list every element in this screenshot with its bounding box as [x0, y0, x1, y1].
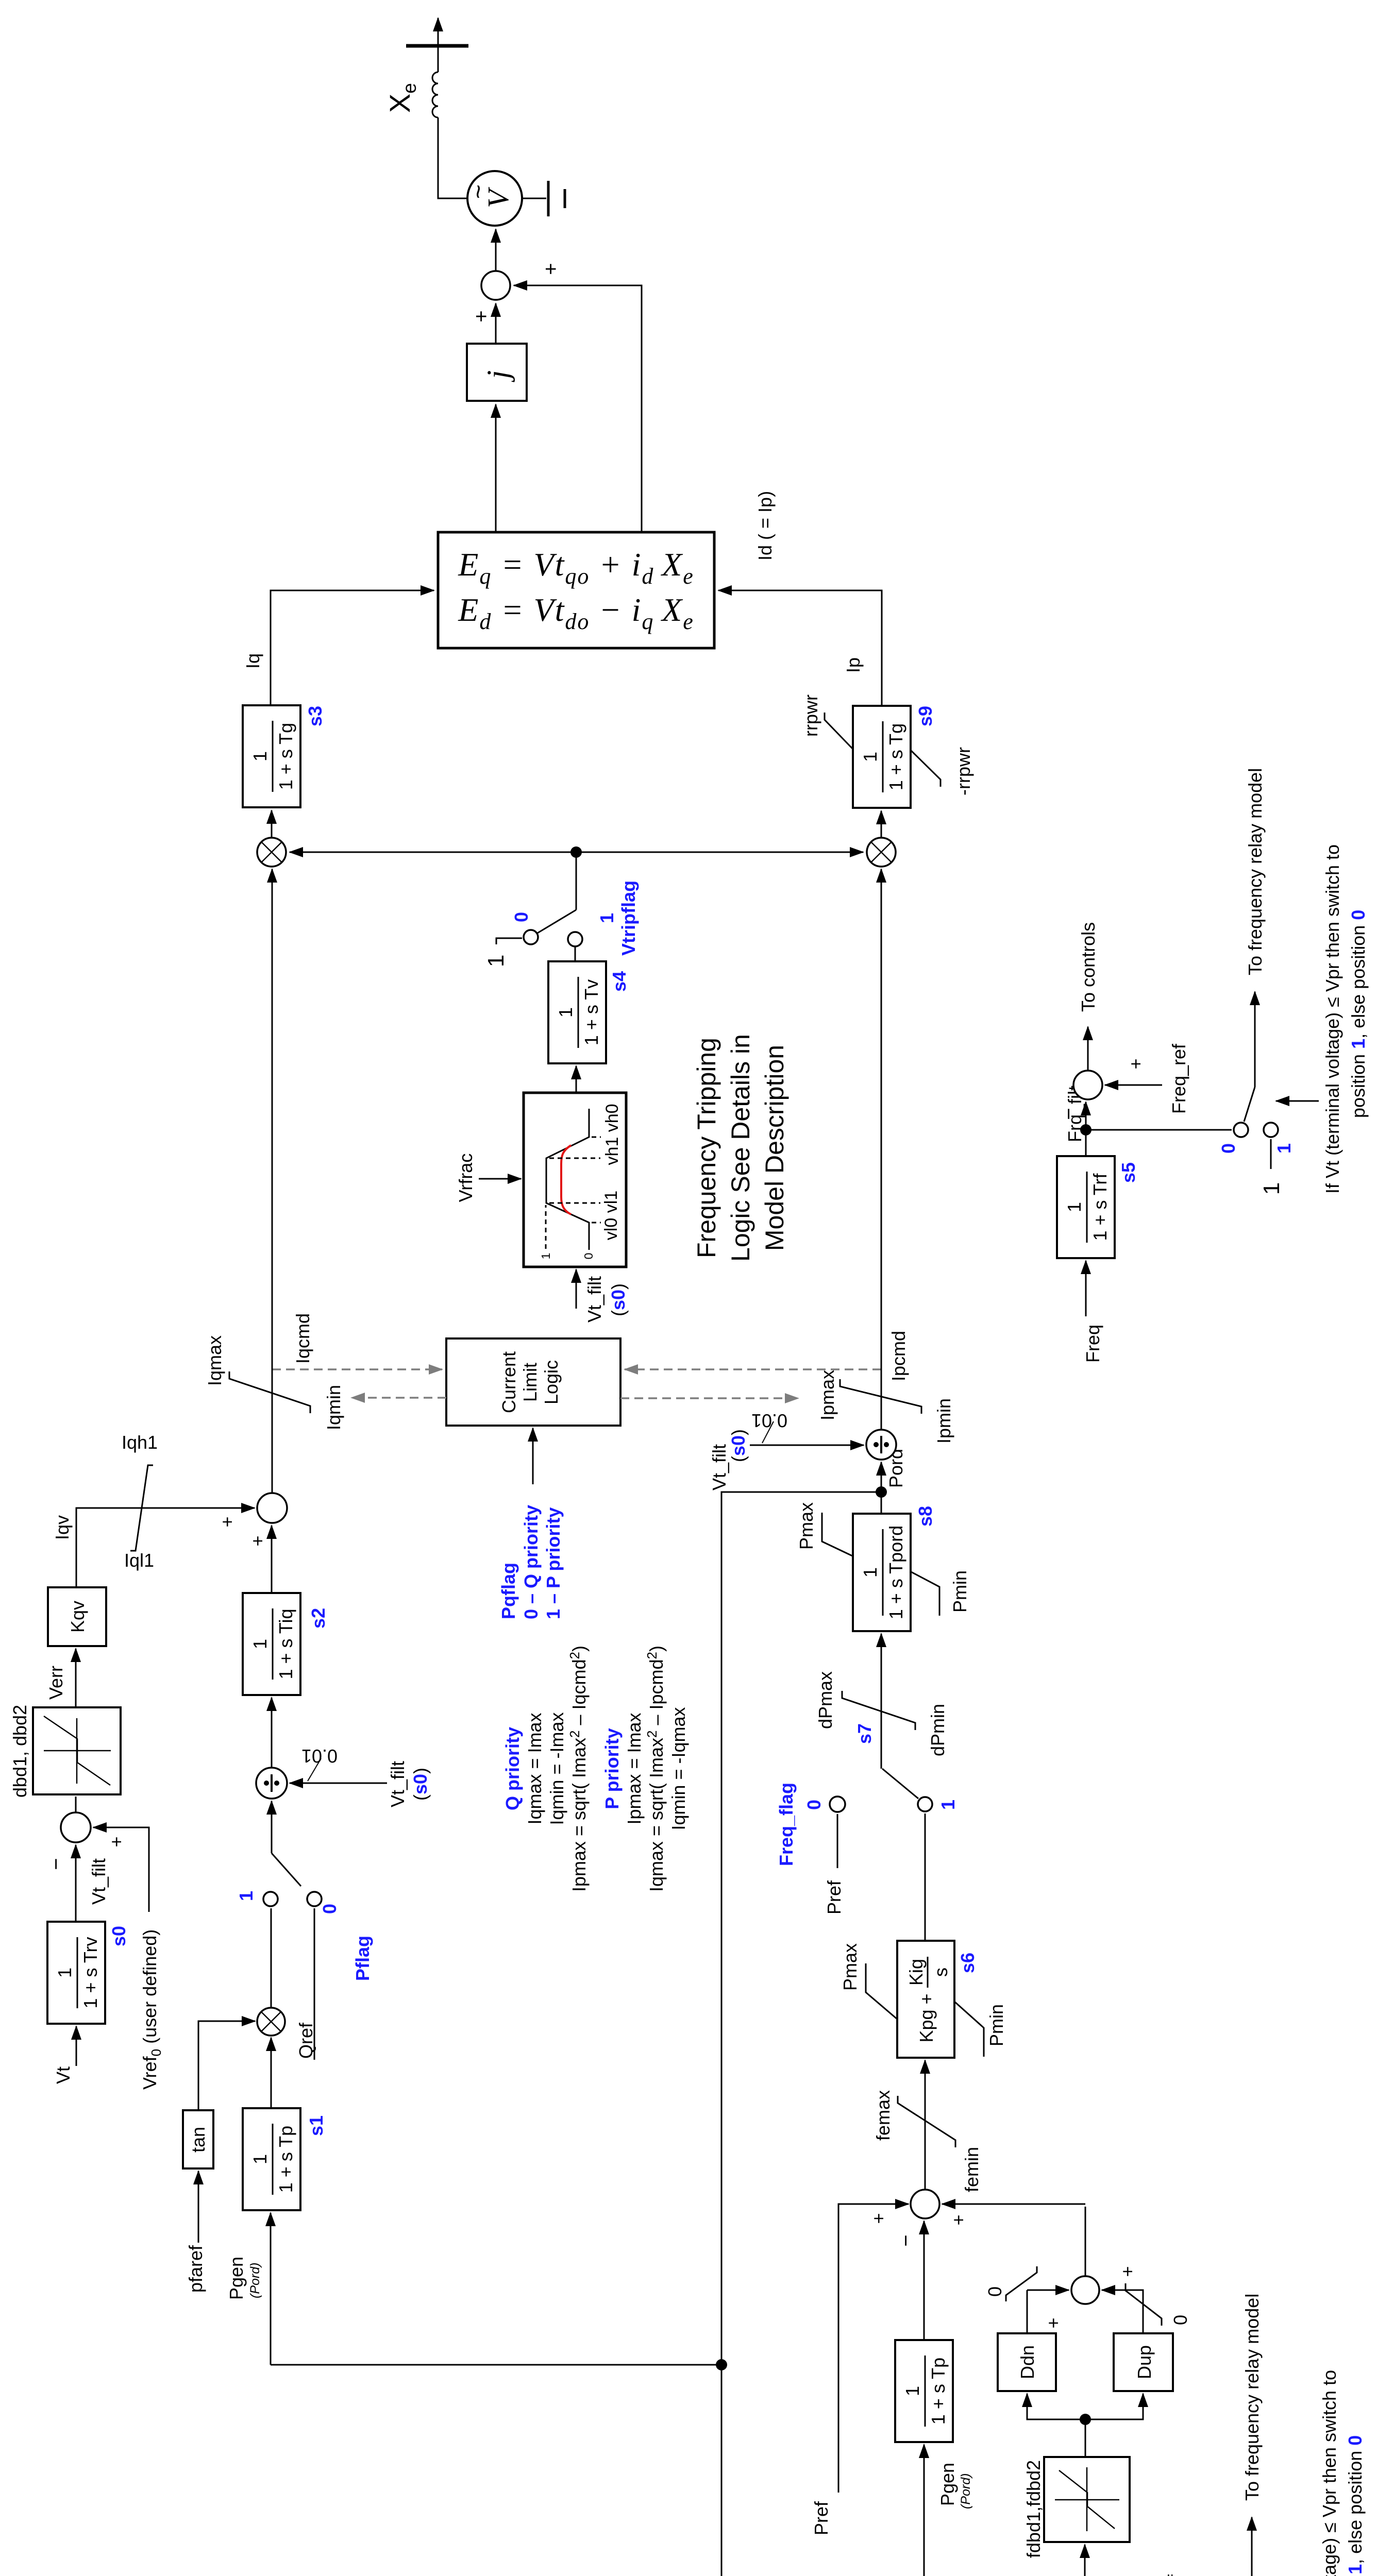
current limit logic box — [446, 1338, 620, 1426]
svg-text:s6: s6 — [957, 1953, 978, 1973]
Iqh1 Iql1 limit tick — [130, 1465, 153, 1551]
trip curve black — [546, 1109, 589, 1250]
svg-text:−: − — [45, 1858, 68, 1870]
dashed one level — [545, 1205, 547, 1249]
svg-text:If Vt (terminal voltage) ≤ Vpr: If Vt (terminal voltage) ≤ Vpr then swit… — [1319, 2370, 1340, 2576]
svg-text:Iq: Iq — [242, 653, 263, 669]
transfer block s3 — [243, 705, 300, 807]
wire mult to Pflag contact1 — [271, 1908, 272, 2008]
fdbd curve — [1059, 2470, 1115, 2529]
svg-text:(s0): (s0) — [410, 1768, 431, 1801]
svg-text:1 – P priority: 1 – P priority — [543, 1507, 564, 1619]
Ddn Dup sum — [1071, 2276, 1099, 2304]
constant 1 wire — [496, 938, 522, 944]
svg-text:0 – Q priority: 0 – Q priority — [520, 1505, 542, 1619]
svg-text:Logic See Details in: Logic See Details in — [726, 1034, 755, 1262]
constant 1 wire relay2 — [1270, 1139, 1272, 1169]
wire EqEd to j — [495, 404, 497, 532]
Iqv wire Kqv to sum — [76, 1508, 255, 1587]
transfer block s4 fraction bar — [578, 977, 579, 1048]
gain block Kqv — [48, 1587, 106, 1646]
svg-text:s2: s2 — [308, 1608, 329, 1629]
svg-text:Kqv: Kqv — [67, 1601, 88, 1633]
Freq_flag contact 1 — [918, 1797, 932, 1811]
svg-text:Kig: Kig — [905, 1959, 927, 1986]
svg-text:Q priority: Q priority — [502, 1727, 523, 1810]
svg-text:1 + s Trf: 1 + s Trf — [1089, 1173, 1111, 1241]
dashed vl1 tick — [549, 1202, 600, 1204]
dbd curve — [44, 1716, 110, 1785]
svg-text:~: ~ — [465, 184, 492, 199]
svg-text:Vt_filt: Vt_filt — [709, 1444, 730, 1490]
svg-text:+: + — [247, 1535, 268, 1546]
svg-text:Freq: Freq — [1082, 1325, 1103, 1363]
svg-text:s9: s9 — [915, 706, 936, 726]
wire inductor to bus — [438, 46, 439, 72]
Freq_flag switch arm — [882, 1769, 918, 1799]
svg-text:1: 1 — [937, 1800, 959, 1810]
Pmax limit tick s8 — [822, 1513, 853, 1556]
zero limit tick Dup — [1126, 2283, 1162, 2326]
svg-text:+: + — [1125, 1058, 1146, 1069]
svg-text:fdbd1,fdbd2: fdbd1,fdbd2 — [1023, 2460, 1044, 2558]
svg-text:s1: s1 — [306, 2115, 327, 2136]
svg-text:1 + s Tp: 1 + s Tp — [275, 2126, 296, 2193]
transfer block s5 second fraction bar — [1086, 1172, 1088, 1243]
Ipmax Ipmin limit tick — [840, 1379, 921, 1414]
svg-text:Vt_filt: Vt_filt — [88, 1858, 109, 1905]
freq error sum 2 — [1073, 1071, 1102, 1099]
transfer block s0 fraction bar — [77, 1937, 78, 2008]
Ipcmd wire to multiplier — [881, 869, 882, 1430]
j block — [467, 344, 527, 401]
Pflag contact 0 — [307, 1892, 322, 1906]
wire sum to source — [495, 229, 497, 271]
wire s0 to sum — [75, 1845, 77, 1922]
ground bar 1 — [547, 181, 550, 216]
Vrfrac arrow — [479, 1178, 521, 1180]
wire to infinite bus arrow — [438, 18, 439, 46]
svg-text:1: 1 — [236, 1891, 257, 1901]
svg-text:Iql1: Iql1 — [124, 1550, 154, 1571]
svg-text:0: 0 — [803, 1800, 825, 1810]
svg-text:Current: Current — [498, 1351, 519, 1413]
svg-text:vh1 vh0: vh1 vh0 — [602, 1104, 622, 1165]
svg-text:rrpwr: rrpwr — [800, 694, 821, 737]
voltage error sum — [61, 1812, 91, 1842]
wire Ip into EqEd — [718, 590, 882, 706]
svg-text:1 + s Tg: 1 + s Tg — [275, 723, 296, 790]
wire sum1 to fdbd — [1084, 2545, 1086, 2576]
svg-text:Pgen: Pgen — [226, 2257, 247, 2300]
bus bar — [406, 44, 468, 48]
dashed Ipmax out of box — [620, 1397, 798, 1399]
svg-text:1: 1 — [249, 751, 271, 761]
multiplier pf control — [257, 2008, 285, 2036]
svg-text:If Vt (terminal voltage) ≤ Vpr: If Vt (terminal voltage) ≤ Vpr then swit… — [1322, 844, 1343, 1194]
svg-text:+: + — [1043, 2317, 1064, 2328]
svg-text:0: 0 — [1218, 1143, 1239, 1154]
svg-text:+: + — [948, 2214, 969, 2225]
svg-text:1 + s Trv: 1 + s Trv — [80, 1937, 101, 2008]
Ddn out wire — [1027, 2290, 1028, 2333]
svg-text:Pref: Pref — [811, 2501, 832, 2535]
svg-text:Iqmin = -Iqmax: Iqmin = -Iqmax — [668, 1707, 689, 1830]
inductor Xe — [432, 72, 438, 117]
svg-text:Pflag: Pflag — [352, 1936, 373, 1981]
svg-text:Pmin: Pmin — [986, 2004, 1007, 2046]
Vt_filt input to trip block — [576, 1269, 577, 1309]
divide block Iq — [256, 1768, 287, 1799]
transfer block s8 — [853, 1514, 911, 1631]
svg-text:Frequency Tripping: Frequency Tripping — [692, 1038, 721, 1258]
Pref stub to contact0 — [837, 1814, 838, 1868]
svg-text:s8: s8 — [915, 1506, 936, 1527]
svg-text:Pmax: Pmax — [839, 1943, 861, 1991]
svg-text:s: s — [930, 1968, 951, 1977]
svg-text:1 + s Tiq: 1 + s Tiq — [275, 1608, 296, 1679]
svg-text:position 1, else position 0: position 1, else position 0 — [1348, 910, 1369, 1118]
dashed vh1 tick — [549, 1158, 600, 1159]
svg-text:Ipmin: Ipmin — [933, 1398, 954, 1444]
s6 frac bar — [927, 1957, 929, 1988]
svg-text:1: 1 — [1259, 1182, 1284, 1195]
fdbd axis v — [1055, 2499, 1119, 2501]
svg-text:1: 1 — [596, 913, 617, 923]
svg-text:Pmin: Pmin — [949, 1570, 970, 1613]
transfer block s9 — [853, 706, 911, 808]
Pmax limit tick s6 — [866, 1963, 898, 2020]
transfer block Tp freq — [895, 2340, 953, 2442]
Ddn into sum — [1027, 2290, 1069, 2291]
dashed Iqmin out of box — [351, 1397, 446, 1399]
Iq command sum — [257, 1493, 287, 1523]
annotation arrow relay2 — [1276, 1100, 1319, 1102]
wire s1 to multiplier — [271, 2038, 272, 2109]
Vt_filt into divide Iq — [290, 1783, 387, 1784]
tan block — [183, 2110, 213, 2168]
svg-text:Vt_filt: Vt_filt — [387, 1761, 408, 1807]
wire sum to deadband — [75, 1797, 77, 1812]
wire Tp filter to droop sum — [923, 2221, 925, 2340]
svg-text:femin: femin — [961, 2147, 982, 2192]
Dup out wire — [1102, 2290, 1143, 2333]
svg-text:Verr: Verr — [45, 1666, 66, 1700]
rrpwr limit tick — [825, 713, 853, 750]
Pord feedback wire — [721, 1492, 924, 2576]
svg-text:Iqmax = Imax: Iqmax = Imax — [524, 1713, 545, 1824]
svg-text:Freq_ref: Freq_ref — [1168, 1043, 1189, 1114]
dPmax dPmin rate tick s7 — [842, 1691, 915, 1730]
wire junction to switch — [576, 852, 577, 910]
dbd axis v — [44, 1750, 111, 1752]
Vtripflag contact 1 — [568, 932, 582, 946]
relay2 switch arm — [1244, 1087, 1255, 1122]
dashed Ipcmd into box — [625, 1368, 881, 1370]
Vt input arrow — [76, 2026, 77, 2066]
svg-text:Pmax: Pmax — [796, 1502, 817, 1550]
svg-text:Iqmin: Iqmin — [323, 1385, 344, 1430]
svg-text:Ipcmd: Ipcmd — [888, 1331, 909, 1381]
svg-text:s3: s3 — [305, 706, 326, 726]
svg-text:To frequency relay model: To frequency relay model — [1241, 2294, 1263, 2501]
svg-text:0.01: 0.01 — [751, 1410, 787, 1431]
fdbd axis h — [1086, 2467, 1088, 2531]
wire tan to multiplier — [198, 2021, 255, 2110]
transfer block s8 fraction bar — [882, 1529, 884, 1616]
svg-text:Ddn: Ddn — [1017, 2345, 1038, 2379]
PI block s6 — [897, 1941, 954, 2058]
wire s5b to sum2 — [1085, 1102, 1087, 1156]
svg-text:femax: femax — [872, 2090, 894, 2141]
junction trip line — [570, 846, 582, 858]
svg-text:pfaref: pfaref — [185, 2245, 206, 2293]
svg-text:+: + — [106, 1836, 127, 1847]
dbd axis h — [76, 1718, 78, 1784]
svg-text:Ipmax = sqrt( Imax2 – Iqcmd2): Ipmax = sqrt( Imax2 – Iqcmd2) — [567, 1646, 590, 1892]
gain block Dup — [1114, 2333, 1173, 2391]
svg-text:position 1, else position 0: position 1, else position 0 — [1345, 2435, 1366, 2576]
svg-text:Vt_filt: Vt_filt — [584, 1276, 605, 1323]
wire source to inductor — [438, 117, 467, 198]
wire s6 to contact1 — [925, 1814, 926, 1941]
Pmin limit tick s8 — [910, 1571, 939, 1616]
svg-text:Kpg +: Kpg + — [916, 1993, 937, 2042]
svg-text:P priority: P priority — [601, 1728, 623, 1809]
svg-text:Freq_ref: Freq_ref — [1164, 2574, 1185, 2576]
wire fdbd to Ddn — [1027, 2394, 1085, 2419]
svg-text:Iqv: Iqv — [52, 1515, 73, 1540]
junction Frq_filt 2 — [1080, 1124, 1091, 1136]
leader 0.01 Iq — [308, 1758, 321, 1781]
transfer block s2 fraction bar — [272, 1608, 274, 1680]
transfer block s0 — [47, 1922, 105, 2024]
svg-text:Vt: Vt — [53, 2066, 74, 2084]
frequency droop sum — [911, 2190, 939, 2218]
svg-text:1 + s Tp: 1 + s Tp — [928, 2358, 949, 2425]
svg-text:+: + — [540, 263, 562, 275]
arrow to frequency relay 1 — [1251, 2517, 1253, 2576]
stub — [271, 807, 273, 808]
ground bar 2 — [564, 189, 566, 208]
output sum circle — [481, 271, 510, 300]
junction Pgen branch — [716, 2359, 727, 2370]
svg-text:+: + — [216, 1516, 238, 1527]
wire s2 to sum — [271, 1526, 273, 1593]
svg-text:1 + s Tpord: 1 + s Tpord — [885, 1526, 906, 1619]
transfer block Tp freq fraction bar — [925, 2355, 926, 2427]
wire s4 to contact — [575, 946, 576, 961]
wire sum to s6 — [925, 2060, 926, 2190]
leader 0.01 P — [762, 1421, 774, 1443]
wire switch to s8 — [881, 1634, 882, 1769]
wire fdbd to Dup — [1085, 2394, 1143, 2419]
svg-text:dbd1, dbd2: dbd1, dbd2 — [9, 1705, 30, 1798]
svg-text:s7: s7 — [854, 1723, 875, 1744]
svg-text:0: 0 — [984, 2286, 1005, 2297]
transfer block s9 fraction bar — [882, 721, 884, 792]
wire dbd to Kqv — [75, 1649, 77, 1707]
svg-text:1: 1 — [1273, 1143, 1295, 1154]
transfer block s2 — [243, 1593, 300, 1695]
wire s8 to divide P — [881, 1462, 882, 1514]
Vref0 wire — [93, 1827, 149, 1912]
svg-text:1: 1 — [860, 752, 881, 762]
Ddn arrow seg — [1028, 2290, 1069, 2291]
svg-text:(s0): (s0) — [608, 1283, 629, 1316]
femax femin limit tick — [898, 2096, 955, 2147]
svg-text:s0: s0 — [108, 1926, 129, 1946]
wire mult to s9 — [881, 811, 882, 838]
relay2 contact 0 — [1234, 1123, 1248, 1137]
svg-text:To controls: To controls — [1078, 922, 1099, 1012]
svg-text:(Pord): (Pord) — [959, 2473, 973, 2509]
Pmin limit tick s6 — [954, 2002, 984, 2057]
trip line to Iq multiplier — [290, 852, 576, 853]
svg-text:0: 0 — [511, 912, 532, 922]
Freq input 2 — [1085, 1261, 1087, 1316]
wire j to sum — [495, 303, 497, 344]
svg-text:s5: s5 — [1118, 1162, 1139, 1183]
arrow to frequency relay 2 — [1254, 992, 1256, 1087]
svg-text:−: − — [895, 2234, 917, 2246]
Iqmax Iqmin limit tick — [229, 1371, 310, 1413]
svg-text:Model Description: Model Description — [760, 1045, 789, 1251]
svg-text:1: 1 — [860, 1567, 881, 1578]
svg-text:Vtripflag: Vtripflag — [618, 880, 639, 956]
Pord junction dot — [876, 1486, 887, 1498]
pfaref input arrow — [198, 2171, 199, 2243]
zero limit tick Ddn — [1006, 2266, 1037, 2301]
svg-text:s4: s4 — [609, 971, 630, 992]
svg-text:1: 1 — [483, 955, 509, 967]
svg-text:1: 1 — [54, 1968, 75, 1978]
svg-text:Iqmax = sqrt( Imax2 – Ipcmd2): Iqmax = sqrt( Imax2 – Ipcmd2) — [644, 1646, 667, 1892]
Pflag switch arm — [272, 1853, 301, 1886]
svg-text:-rrpwr: -rrpwr — [953, 747, 974, 795]
svg-text:dPmax: dPmax — [815, 1671, 836, 1729]
svg-text:Iqh1: Iqh1 — [122, 1432, 158, 1453]
junction fdbd out — [1080, 2414, 1091, 2425]
svg-text:Dup: Dup — [1134, 2345, 1155, 2379]
minus rrpwr limit tick — [911, 751, 941, 787]
svg-text:1: 1 — [539, 1253, 552, 1260]
Eq Ed equation block — [438, 532, 714, 648]
dashed vh0 tick — [592, 1137, 601, 1138]
svg-text:0: 0 — [319, 1904, 340, 1914]
fdbd out wire — [1085, 2419, 1086, 2457]
svg-text:1 + s Tv: 1 + s Tv — [581, 979, 602, 1045]
dashed vl0 tick — [592, 1222, 601, 1224]
svg-text:1: 1 — [249, 2154, 271, 2164]
svg-text:Limit: Limit — [519, 1363, 541, 1402]
deadband dbd block — [33, 1707, 121, 1794]
svg-text:1: 1 — [249, 1639, 271, 1649]
To controls arrow — [1087, 1027, 1089, 1071]
svg-text:1: 1 — [1064, 1202, 1085, 1212]
dashed Iqcmd into box — [272, 1368, 442, 1370]
branch up to s1 input — [271, 2364, 721, 2366]
trip line to Ip multiplier — [576, 852, 863, 853]
svg-text:Pref: Pref — [824, 1880, 845, 1914]
multiplier Iq path — [257, 838, 286, 867]
Pgen input to s1 — [270, 2213, 272, 2365]
Qref wire — [314, 1908, 315, 2060]
divide block P — [866, 1430, 896, 1460]
svg-text:Vrfrac: Vrfrac — [455, 1154, 476, 1202]
svg-text:(Pord): (Pord) — [248, 2263, 262, 2298]
voltage trip logic block — [524, 1093, 626, 1267]
svg-text:Ip: Ip — [843, 657, 864, 673]
ground wire — [522, 198, 546, 199]
svg-text:0: 0 — [1170, 2315, 1191, 2325]
Freq_ref input 2 — [1105, 1084, 1162, 1086]
Iqcmd wire to multiplier — [272, 869, 273, 1493]
AC source circle — [467, 171, 522, 226]
svg-text:1 + s Tg: 1 + s Tg — [885, 723, 906, 790]
wire trip logic to s4 — [576, 1066, 577, 1093]
svg-text:0: 0 — [582, 1253, 595, 1260]
relay2 contact 1 — [1264, 1123, 1278, 1137]
transfer block s1 — [243, 2108, 300, 2210]
wire divide to s2 — [271, 1698, 273, 1768]
Vtripflag contact 0 — [524, 930, 538, 944]
arrowhead into Tp freq — [923, 2445, 925, 2461]
svg-text:1: 1 — [902, 2386, 923, 2396]
svg-text:+: + — [470, 310, 493, 322]
svg-text:Id ( = Ip): Id ( = Ip) — [754, 491, 776, 561]
svg-text:dPmin: dPmin — [927, 1704, 948, 1756]
feedback wire EqEd to sum — [514, 285, 642, 532]
svg-text:Iqmin = -Imax: Iqmin = -Imax — [546, 1712, 567, 1825]
svg-text:Logic: Logic — [541, 1360, 562, 1404]
svg-text:Pgen: Pgen — [937, 2463, 958, 2506]
svg-text:Vref0 (user defined): Vref0 (user defined) — [139, 1929, 164, 2090]
svg-text:(s0): (s0) — [728, 1429, 749, 1462]
svg-text:+: + — [868, 2213, 889, 2224]
svg-text:Iqcmd: Iqcmd — [292, 1313, 313, 1364]
svg-text:Iqmax: Iqmax — [204, 1335, 225, 1386]
transfer block s3 fraction bar — [272, 721, 274, 792]
svg-text:+: + — [1117, 2266, 1138, 2277]
svg-text:Ipmax = Imax: Ipmax = Imax — [624, 1713, 645, 1824]
svg-text:Pqflag: Pqflag — [498, 1563, 519, 1619]
trip curve red — [561, 1145, 571, 1214]
Pflag contact 1 — [263, 1892, 278, 1906]
gain block Ddn — [998, 2333, 1056, 2391]
svg-text:Freq_flag: Freq_flag — [776, 1783, 797, 1866]
wire Iq into EqEd — [271, 590, 434, 705]
wire to relay contact 0 b — [1086, 1129, 1232, 1131]
wire sum output — [1085, 2207, 1086, 2276]
Pref wire into droop sum — [838, 2204, 909, 2493]
svg-text:0.01: 0.01 — [301, 1745, 338, 1767]
svg-text:Ipmax: Ipmax — [817, 1370, 838, 1420]
Freq_flag contact 0 — [830, 1797, 845, 1812]
svg-text:1: 1 — [555, 1007, 576, 1018]
transfer block s1 fraction bar — [272, 2124, 274, 2195]
Vt_filt into divide P — [750, 1445, 864, 1446]
Pqflag arrow to box — [532, 1428, 534, 1484]
svg-text:Xe: Xe — [383, 83, 420, 113]
wire mult to s3 — [271, 810, 273, 838]
wire Pflag switch to divide — [271, 1801, 273, 1853]
svg-text:tan: tan — [188, 2127, 209, 2153]
Vtripflag switch arm — [538, 910, 576, 933]
frequency deadband fdbd block — [1044, 2457, 1130, 2542]
svg-text:Qref: Qref — [295, 2022, 316, 2059]
svg-text:vl0 vl1: vl0 vl1 — [601, 1191, 621, 1240]
